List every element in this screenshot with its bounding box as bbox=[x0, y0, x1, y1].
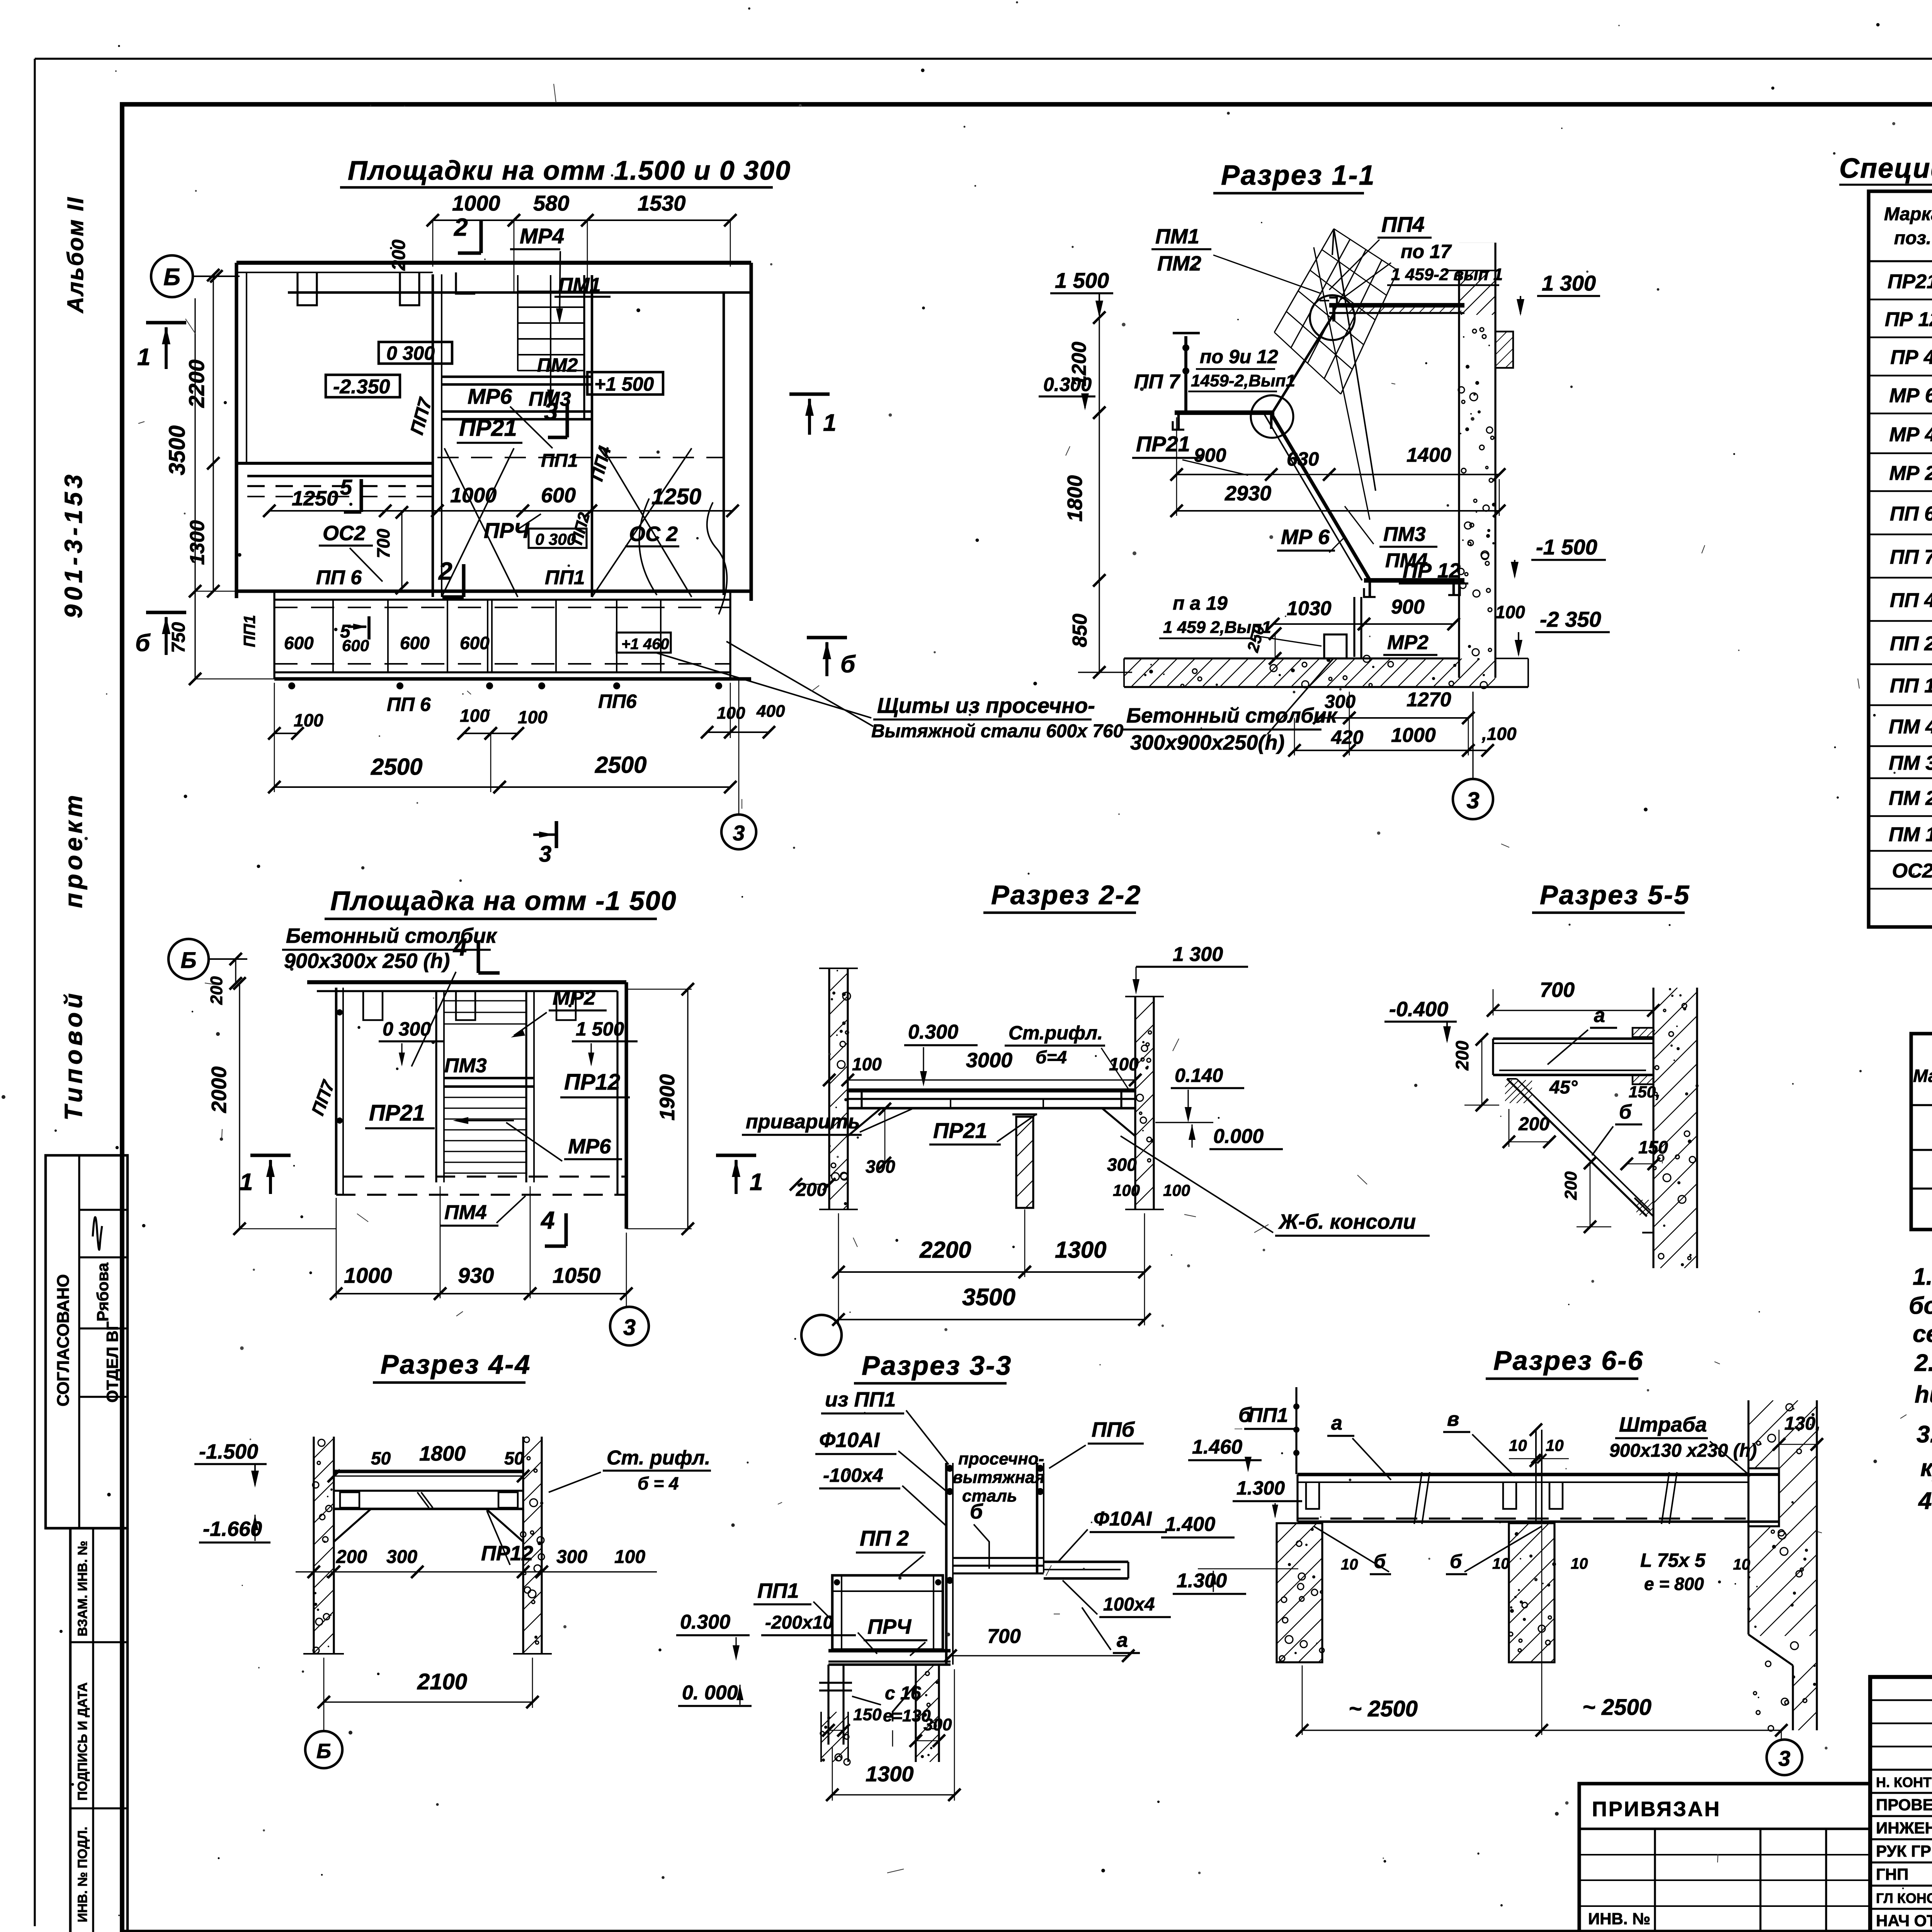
svg-text:Вытяжной стали 600х 760: Вытяжной стали 600х 760 bbox=[871, 721, 1124, 742]
r66 middle column bbox=[1509, 1523, 1554, 1662]
svg-text:100: 100 bbox=[614, 1547, 645, 1567]
r44 left wall bbox=[313, 1437, 315, 1654]
plan1 top dimension line 1000/580/1530 bbox=[433, 219, 514, 221]
plan1 right wall bbox=[723, 293, 725, 595]
svg-text:0 300: 0 300 bbox=[383, 1018, 431, 1040]
r11 railing net upper spike bbox=[1332, 229, 1334, 255]
svg-text:б = 4: б = 4 bbox=[638, 1473, 679, 1493]
svg-text:45°: 45° bbox=[1549, 1077, 1578, 1098]
svg-text:+1 500: +1 500 bbox=[594, 373, 654, 395]
plan1 section mark 2 bottom bbox=[462, 564, 465, 597]
svg-text:ПП1: ПП1 bbox=[757, 1579, 799, 1602]
svg-text:ПМ3: ПМ3 bbox=[1383, 523, 1426, 546]
svg-text:е = 800: е = 800 bbox=[1644, 1574, 1704, 1594]
plan1 section mark 5 in band bbox=[367, 616, 371, 639]
plan1 middle-left wall bbox=[236, 462, 433, 465]
svg-text:Б: Б bbox=[163, 264, 180, 291]
svg-text:ВЗАМ. ИНВ. №: ВЗАМ. ИНВ. № bbox=[75, 1541, 90, 1636]
svg-text:200: 200 bbox=[1518, 1114, 1549, 1134]
r33 middle wall bbox=[915, 1665, 917, 1762]
svg-text:,100: ,100 bbox=[1481, 724, 1517, 744]
r11 platform PR12 bbox=[1364, 578, 1464, 583]
svg-text:Разрез 1-1: Разрез 1-1 bbox=[1221, 160, 1376, 191]
r11 left dim chain bbox=[1099, 318, 1100, 413]
svg-text:700: 700 bbox=[987, 1625, 1021, 1648]
svg-text:Н. КОНТР.: Н. КОНТР. bbox=[1876, 1774, 1932, 1790]
svg-text:1900: 1900 bbox=[656, 1074, 679, 1121]
svg-text:2100: 2100 bbox=[417, 1669, 467, 1694]
svg-text:ПП1: ПП1 bbox=[545, 566, 585, 589]
svg-text:600: 600 bbox=[541, 484, 576, 507]
svg-text:4: 4 bbox=[540, 1206, 555, 1234]
svg-text:130,: 130, bbox=[1784, 1413, 1820, 1434]
svg-text:930: 930 bbox=[458, 1263, 494, 1287]
svg-text:по 9и 12: по 9и 12 bbox=[1200, 346, 1278, 367]
plan1 stair flight MR4 steps bbox=[518, 291, 584, 292]
svg-text:2500: 2500 bbox=[371, 754, 422, 780]
r66 band channel stubs bbox=[1306, 1482, 1319, 1509]
svg-text:ПМ 3: ПМ 3 bbox=[1889, 752, 1932, 774]
plan1 level box +1460 bbox=[617, 633, 671, 653]
svg-text:0.300: 0.300 bbox=[680, 1611, 730, 1633]
svg-text:Типовой: Типовой bbox=[60, 990, 87, 1121]
svg-text:100: 100 bbox=[717, 704, 745, 723]
svg-text:ПР21: ПР21 bbox=[1136, 432, 1190, 456]
svg-text:вытяжная: вытяжная bbox=[952, 1468, 1045, 1487]
svg-text:ПП1: ПП1 bbox=[541, 451, 578, 471]
r66 left column bbox=[1277, 1523, 1322, 1662]
svg-text:900х300х 250 (h): 900х300х 250 (h) bbox=[284, 949, 450, 973]
r44 left console bbox=[334, 1509, 371, 1542]
scan speckles bbox=[922, 306, 925, 310]
r11 right wall parapet hatch bbox=[1415, 270, 1536, 315]
svg-text:900: 900 bbox=[1391, 596, 1425, 618]
r33 middle wall chamfer bbox=[893, 1685, 916, 1721]
svg-text:СОГЛАСОВАНО: СОГЛАСОВАНО bbox=[54, 1274, 73, 1406]
svg-text:200: 200 bbox=[1561, 1171, 1580, 1200]
svg-text:200: 200 bbox=[336, 1547, 367, 1567]
r55 base plate lower bbox=[1634, 1198, 1653, 1233]
svg-text:Разрез 3-3: Разрез 3-3 bbox=[862, 1350, 1012, 1381]
plan2 right wall bbox=[624, 982, 628, 1229]
svg-text:Рябова: Рябова bbox=[94, 1262, 112, 1321]
r22 empty circle bbox=[801, 1315, 842, 1355]
svg-text:2930: 2930 bbox=[1225, 482, 1271, 505]
plan1 left section arrow b bottom bbox=[146, 611, 186, 614]
svg-text:50: 50 bbox=[504, 1448, 524, 1468]
svg-text:ПП 2: ПП 2 bbox=[860, 1526, 909, 1550]
svg-text:1800: 1800 bbox=[419, 1442, 466, 1465]
svg-text:900х130 х230 (h): 900х130 х230 (h) bbox=[1609, 1440, 1757, 1461]
svg-text:ПР 12: ПР 12 bbox=[1403, 559, 1461, 582]
r11 floor slab bbox=[1124, 657, 1459, 659]
svg-text:а: а bbox=[1117, 1629, 1128, 1651]
plan1 cross bracing X bbox=[442, 448, 514, 597]
svg-text:ПП1: ПП1 bbox=[1248, 1404, 1288, 1427]
svg-text:1200: 1200 bbox=[1068, 342, 1090, 386]
plan1 stair core walls bbox=[432, 274, 434, 597]
svg-text:1300: 1300 bbox=[186, 520, 209, 565]
plan1 leader to shields text bbox=[657, 653, 871, 718]
svg-text:1530: 1530 bbox=[638, 191, 686, 215]
plan1 section mark 2 top bbox=[479, 220, 483, 253]
svg-text:ПРЧ: ПРЧ bbox=[484, 518, 530, 543]
svg-text:10: 10 bbox=[1546, 1436, 1564, 1454]
svg-text:10: 10 bbox=[1733, 1556, 1750, 1573]
svg-text:0.000: 0.000 bbox=[1213, 1125, 1264, 1148]
svg-text:1.300: 1.300 bbox=[1177, 1570, 1227, 1592]
svg-text:ПМ 2: ПМ 2 bbox=[1889, 787, 1932, 810]
svg-text:3: 3 bbox=[623, 1315, 636, 1340]
svg-text:1000: 1000 bbox=[1391, 724, 1436, 747]
svg-text:ПМ 4: ПМ 4 bbox=[1889, 716, 1932, 738]
plan2 dashed bottom edge bbox=[343, 1175, 626, 1177]
svg-text:ПМ2: ПМ2 bbox=[537, 354, 578, 376]
svg-text:Спецификация элементов к п: Спецификация элементов к площадкам bbox=[1839, 153, 1932, 184]
svg-text:приварить: приварить bbox=[746, 1111, 860, 1133]
svg-text:100: 100 bbox=[460, 706, 490, 726]
r11 node circle A bbox=[1310, 295, 1355, 340]
svg-text:600: 600 bbox=[342, 636, 369, 655]
sheet outer border bbox=[35, 58, 1932, 60]
plan1 section mark 3 bbox=[565, 405, 569, 437]
svg-text:1270: 1270 bbox=[1406, 689, 1451, 711]
svg-text:3: 3 bbox=[1466, 787, 1479, 813]
svg-text:hш = 6мм.: hш = 6мм. bbox=[1915, 1381, 1932, 1408]
plan1 grid circle 3 bbox=[738, 680, 740, 815]
svg-text:1. Ограждения к площадкам к: 1. Ограждения к площадкам крепятся через… bbox=[1913, 1264, 1932, 1290]
svg-text:1 500: 1 500 bbox=[576, 1018, 624, 1040]
plan1 landing PM3 line bbox=[442, 410, 592, 413]
r22 left console bbox=[848, 1108, 881, 1136]
plan1 level box 0 300 bbox=[379, 342, 452, 364]
svg-text:-2.350: -2.350 bbox=[333, 376, 390, 398]
svg-text:300: 300 bbox=[386, 1547, 417, 1567]
svg-text:с 16: с 16 bbox=[885, 1683, 921, 1704]
svg-text:750: 750 bbox=[168, 622, 189, 653]
svg-text:0.300: 0.300 bbox=[908, 1021, 958, 1043]
r66 band break marks bbox=[1414, 1472, 1422, 1524]
svg-text:ГНП: ГНП bbox=[1876, 1865, 1908, 1883]
svg-text:ПП1: ПП1 bbox=[240, 615, 259, 647]
r55 beam end plate bbox=[1633, 1028, 1653, 1037]
r44 right console bbox=[486, 1509, 523, 1542]
svg-text:б: б bbox=[840, 651, 856, 678]
svg-text:600: 600 bbox=[460, 633, 490, 653]
svg-text:700: 700 bbox=[373, 529, 393, 558]
r11 platform slab hatch bbox=[1345, 306, 1461, 313]
r44 right wall bbox=[522, 1437, 524, 1654]
plan2 section mark 4 bottom bbox=[564, 1213, 568, 1246]
plan2 section mark 4 top bbox=[476, 940, 480, 973]
svg-text:100: 100 bbox=[852, 1054, 882, 1074]
svg-text:Марка: Марка bbox=[1884, 204, 1932, 224]
svg-text:3000: 3000 bbox=[966, 1049, 1012, 1072]
svg-text:МР6: МР6 bbox=[568, 1135, 611, 1158]
svg-text:100х4: 100х4 bbox=[1103, 1594, 1155, 1615]
plan1 right section arrow T1 bbox=[789, 392, 830, 396]
r33 fence rails top bbox=[953, 1557, 1044, 1559]
svg-text:100: 100 bbox=[518, 707, 548, 727]
r22 left wall bbox=[828, 968, 830, 1209]
svg-text:б: б bbox=[135, 630, 151, 656]
plan1 lower platform band bbox=[236, 589, 751, 593]
r11 platform left end detail bbox=[1320, 300, 1329, 301]
r11 wall step out bbox=[1495, 332, 1513, 368]
svg-text:4. Площадки на отм. 1.46: 4. Площадки на отм. 1.460 съемные. bbox=[1918, 1488, 1932, 1514]
plan2 stair steps bbox=[444, 1097, 526, 1098]
r11 concrete post bbox=[1324, 634, 1347, 658]
plan1 grid circle B bbox=[151, 255, 193, 297]
r11 railing net parallelogram bbox=[1274, 229, 1334, 332]
svg-text:МР4: МР4 bbox=[520, 224, 564, 248]
svg-text:Марка: Марка bbox=[1913, 1066, 1932, 1086]
plan1 band panel dividers bbox=[332, 600, 334, 672]
r11 grid circle 3 bbox=[1472, 692, 1473, 779]
svg-text:ПР21: ПР21 bbox=[369, 1100, 425, 1126]
svg-text:Альбом II: Альбом II bbox=[63, 196, 88, 314]
svg-text:10: 10 bbox=[1341, 1556, 1358, 1573]
plan2 stair upper steps bbox=[444, 1000, 526, 1001]
svg-text:1.300: 1.300 bbox=[1236, 1477, 1285, 1499]
svg-text:1 300: 1 300 bbox=[1542, 271, 1596, 295]
svg-text:300: 300 bbox=[556, 1547, 587, 1567]
plan1 section mark 3 bottom bbox=[554, 821, 558, 848]
svg-text:по 17: по 17 bbox=[1401, 241, 1452, 262]
svg-text:3500: 3500 bbox=[962, 1284, 1015, 1311]
r22 right wall bbox=[1134, 997, 1136, 1209]
r33 left support bbox=[827, 1665, 829, 1745]
svg-text:1030: 1030 bbox=[1287, 597, 1332, 620]
svg-text:поз.: поз. bbox=[1894, 228, 1931, 248]
svg-text:ПП 6: ПП 6 bbox=[1890, 503, 1932, 525]
svg-text:1: 1 bbox=[823, 410, 836, 436]
plan1 right wall dashed inner bbox=[723, 294, 724, 595]
r11 right wall concrete bbox=[1458, 270, 1460, 678]
plan2 grid circle B bbox=[168, 939, 209, 979]
r55 strut hatch top bbox=[1482, 1080, 1554, 1103]
svg-text:Б: Б bbox=[316, 1740, 331, 1763]
svg-text:1: 1 bbox=[137, 344, 150, 371]
plan2 landing PM3 bbox=[444, 1077, 534, 1080]
svg-text:болтами нормальной точности: болтами нормальной точности М12 ГОСТ 779… bbox=[1909, 1293, 1932, 1319]
svg-text:ПР12: ПР12 bbox=[564, 1070, 620, 1095]
svg-text:РУК ГР: РУК ГР bbox=[1876, 1842, 1931, 1860]
svg-text:б: б bbox=[1450, 1551, 1463, 1572]
svg-text:1 459-2 вып 1: 1 459-2 вып 1 bbox=[1391, 265, 1503, 284]
svg-text:2500: 2500 bbox=[595, 752, 646, 778]
svg-text:МР 2: МР 2 bbox=[1889, 462, 1932, 485]
svg-text:100: 100 bbox=[1113, 1181, 1140, 1199]
svg-text:10: 10 bbox=[1492, 1555, 1510, 1572]
plan1 top wall bbox=[236, 261, 751, 265]
svg-text:ПП 1: ПП 1 bbox=[1890, 675, 1932, 697]
svg-text:Б: Б bbox=[180, 948, 196, 973]
svg-text:1400: 1400 bbox=[1406, 444, 1451, 466]
svg-text:2000: 2000 bbox=[207, 1066, 231, 1113]
svg-text:ПР 4: ПР 4 bbox=[1890, 346, 1932, 369]
svg-text:Площадки на отм 1.500 и 0: Площадки на отм 1.500 и 0 300 bbox=[348, 155, 791, 185]
svg-text:Ст.рифл.: Ст.рифл. bbox=[1009, 1022, 1103, 1044]
r66 middle joint bbox=[1535, 1430, 1537, 1520]
svg-text:ПР21: ПР21 bbox=[459, 415, 517, 441]
plan2 grid circle 3 bbox=[626, 1298, 627, 1306]
plan2 stair arrow bbox=[456, 1120, 514, 1121]
svg-text:2200: 2200 bbox=[184, 359, 209, 408]
svg-text:150: 150 bbox=[853, 1705, 882, 1724]
r11 PP7 railing bbox=[1184, 336, 1187, 411]
svg-text:Ж-б. консоли: Ж-б. консоли bbox=[1278, 1210, 1416, 1233]
svg-text:Щиты из просечно-: Щиты из просечно- bbox=[877, 693, 1095, 718]
svg-text:Разрез 6-6: Разрез 6-6 bbox=[1493, 1345, 1644, 1376]
svg-text:3. Все металлические констру: 3. Все металлические конструкции окрасит… bbox=[1917, 1421, 1932, 1448]
r33 box PP2 bbox=[832, 1575, 943, 1650]
svg-text:ГЛ КОНСТР: ГЛ КОНСТР bbox=[1876, 1890, 1932, 1906]
svg-text:из ПП1: из ПП1 bbox=[825, 1388, 896, 1411]
r33 right post bbox=[1036, 1463, 1039, 1573]
svg-text:серии 1.459-2 Вып.1.: серии 1.459-2 Вып.1. bbox=[1913, 1321, 1932, 1347]
svg-text:1250: 1250 bbox=[292, 487, 338, 510]
svg-text:Разрез 4-4: Разрез 4-4 bbox=[381, 1349, 531, 1379]
plan2 right section arrow 1 bbox=[716, 1153, 756, 1157]
svg-text:ИНВ. № ПОДЛ.: ИНВ. № ПОДЛ. bbox=[75, 1827, 90, 1922]
plan1 level box 0 300 small bbox=[529, 529, 587, 548]
svg-text:10: 10 bbox=[1571, 1555, 1588, 1572]
svg-text:150: 150 bbox=[1638, 1137, 1668, 1157]
svg-text:400: 400 bbox=[756, 702, 785, 721]
svg-text:+1 460: +1 460 bbox=[621, 636, 669, 653]
svg-text:ППб: ППб bbox=[1092, 1418, 1135, 1441]
svg-text:ПМ1: ПМ1 bbox=[1155, 225, 1199, 248]
svg-text:ПМ4: ПМ4 bbox=[444, 1201, 487, 1224]
plan2 stubs top bbox=[363, 991, 383, 1020]
svg-text:МР 6: МР 6 bbox=[1889, 384, 1932, 407]
r22 middle column bbox=[1016, 1117, 1033, 1208]
svg-text:100: 100 bbox=[1163, 1181, 1190, 1199]
r66 grid circle 3 bbox=[1781, 1730, 1782, 1739]
svg-text:Штраба: Штраба bbox=[1619, 1413, 1707, 1436]
svg-text:-2 350: -2 350 bbox=[1540, 607, 1601, 631]
svg-text:10: 10 bbox=[1509, 1436, 1527, 1454]
r55 wall bbox=[1652, 988, 1654, 1268]
svg-text:ПРИВЯЗАН: ПРИВЯЗАН bbox=[1592, 1798, 1721, 1821]
svg-text:ОС2: ОС2 bbox=[1892, 860, 1932, 882]
r33 platform PRCH bbox=[828, 1649, 951, 1652]
svg-text:-200х10: -200х10 bbox=[765, 1612, 833, 1633]
svg-text:200: 200 bbox=[1452, 1041, 1472, 1071]
svg-text:1000: 1000 bbox=[450, 484, 497, 507]
svg-text:3: 3 bbox=[733, 821, 745, 845]
svg-text:300: 300 bbox=[923, 1715, 952, 1734]
svg-text:200: 200 bbox=[207, 976, 226, 1005]
svg-text:1: 1 bbox=[240, 1169, 253, 1196]
svg-text:проект: проект bbox=[60, 791, 87, 908]
svg-text:1000: 1000 bbox=[344, 1263, 392, 1287]
svg-text:ПП 2: ПП 2 bbox=[1890, 633, 1932, 655]
svg-text:~ 2500: ~ 2500 bbox=[1582, 1695, 1651, 1720]
privyazan table bbox=[1579, 1784, 1870, 1932]
svg-text:~ 2500: ~ 2500 bbox=[1349, 1696, 1418, 1721]
svg-text:1000: 1000 bbox=[452, 191, 500, 215]
svg-text:Бетонный столбик: Бетонный столбик bbox=[1126, 704, 1338, 727]
svg-text:700: 700 bbox=[1540, 978, 1575, 1002]
svg-text:2200: 2200 bbox=[919, 1237, 971, 1263]
plan1 stair arrow bbox=[550, 282, 551, 402]
svg-text:100: 100 bbox=[294, 710, 323, 730]
svg-text:ПР12: ПР12 bbox=[481, 1542, 533, 1565]
svg-text:ПП 6: ПП 6 bbox=[316, 566, 362, 589]
svg-text:1 500: 1 500 bbox=[1055, 268, 1109, 293]
svg-text:ПП 6: ПП 6 bbox=[387, 694, 431, 715]
plan1 dashed room edge right bbox=[437, 457, 724, 458]
left stamp agreement box bbox=[46, 1155, 128, 1528]
r22 right console bbox=[1102, 1108, 1135, 1136]
svg-text:МР 4: МР 4 bbox=[1889, 423, 1932, 446]
svg-text:ПП 7: ПП 7 bbox=[1890, 546, 1932, 568]
svg-text:0.140: 0.140 bbox=[1175, 1065, 1223, 1086]
svg-text:300х900х250(h): 300х900х250(h) bbox=[1130, 731, 1284, 754]
svg-text:а: а bbox=[1331, 1412, 1342, 1434]
r44 platform deck bbox=[334, 1469, 523, 1473]
svg-text:МР2: МР2 bbox=[553, 986, 595, 1009]
svg-text:в: в bbox=[1447, 1408, 1459, 1430]
plan1 small ticks under band bbox=[288, 682, 295, 689]
r22 end plates bbox=[848, 1090, 862, 1108]
svg-text:50: 50 bbox=[371, 1448, 391, 1468]
plan2 stair walls bbox=[435, 991, 437, 1182]
svg-text:600: 600 bbox=[284, 633, 314, 653]
plan1 left section arrows 1 bbox=[146, 321, 186, 324]
svg-text:Разрез 2-2: Разрез 2-2 bbox=[991, 880, 1141, 910]
svg-text:МР2: МР2 bbox=[1387, 631, 1429, 654]
svg-text:3: 3 bbox=[544, 398, 558, 425]
r33 left foundation hatch bbox=[771, 1712, 883, 1762]
plan1 right section arrow Tb bbox=[807, 636, 847, 639]
svg-text:630: 630 bbox=[1287, 448, 1319, 470]
svg-text:ПР21: ПР21 bbox=[933, 1118, 987, 1143]
plan1 level box -2.350 bbox=[326, 375, 400, 397]
svg-text:900: 900 bbox=[1194, 444, 1226, 466]
plan1 middle wall dashed bbox=[247, 485, 433, 487]
r11 column under stair bbox=[1353, 597, 1355, 657]
plan2 top wall bbox=[307, 980, 626, 984]
svg-text:ИНЖЕН: ИНЖЕН bbox=[1876, 1819, 1932, 1837]
plan1 level box +1 500 bbox=[587, 372, 663, 395]
r66 shtraba notch bbox=[1748, 1468, 1779, 1526]
svg-text:1 300: 1 300 bbox=[1173, 943, 1223, 966]
svg-text:L 75х 5: L 75х 5 bbox=[1640, 1549, 1706, 1571]
svg-text:3: 3 bbox=[1778, 1746, 1790, 1770]
svg-text:ПМ3: ПМ3 bbox=[444, 1054, 487, 1077]
svg-text:б: б bbox=[1238, 1403, 1252, 1427]
r11 stair MR6 stringer bbox=[1272, 414, 1369, 579]
plan2 left section arrows 1 bbox=[250, 1153, 291, 1157]
svg-text:1300: 1300 bbox=[866, 1762, 914, 1786]
svg-text:200: 200 bbox=[796, 1180, 827, 1200]
svg-text:краской ГОСТ 695-77 за 2: краской ГОСТ 695-77 за 2 раза. bbox=[1920, 1455, 1932, 1481]
svg-text:-1 500: -1 500 bbox=[1536, 535, 1597, 559]
svg-text:ОС2: ОС2 bbox=[323, 522, 366, 545]
svg-text:0 300: 0 300 bbox=[386, 342, 435, 364]
svg-text:НАЧ ОТД: НАЧ ОТД bbox=[1876, 1912, 1932, 1930]
r55 beam bbox=[1493, 1037, 1653, 1040]
svg-text:Ф10АI: Ф10АI bbox=[1094, 1508, 1152, 1530]
left stamp lower box bbox=[69, 1528, 72, 1932]
svg-text:Разрез 5-5: Разрез 5-5 bbox=[1540, 880, 1690, 910]
svg-text:1050: 1050 bbox=[553, 1263, 601, 1287]
r33 right platform bbox=[1044, 1561, 1128, 1563]
svg-text:сталь: сталь bbox=[962, 1486, 1017, 1505]
